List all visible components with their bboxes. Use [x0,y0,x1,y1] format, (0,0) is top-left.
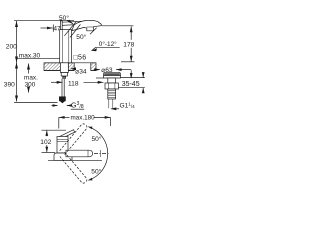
svg-text:G3/8: G3/8 [71,101,84,110]
svg-text:0°-12°: 0°-12° [99,40,117,48]
svg-text:35-45: 35-45 [122,81,140,88]
svg-text:50°: 50° [76,33,86,41]
svg-text:50°: 50° [92,135,102,143]
svg-text:⌀63: ⌀63 [101,67,113,74]
svg-text:⌀34: ⌀34 [75,68,87,75]
svg-text:max.180: max.180 [71,115,96,122]
svg-text:47: 47 [53,26,61,33]
svg-text:118: 118 [68,80,79,87]
svg-text:□56: □56 [73,55,86,62]
svg-text:50°: 50° [59,14,69,22]
svg-text:102: 102 [40,139,51,146]
svg-text:max.30: max.30 [19,52,41,59]
svg-text:50°: 50° [91,167,101,175]
svg-text:300: 300 [25,81,36,88]
svg-text:200: 200 [6,43,17,50]
svg-text:390: 390 [4,82,15,89]
svg-text:178: 178 [123,41,134,48]
svg-text:G11/4: G11/4 [120,102,136,110]
